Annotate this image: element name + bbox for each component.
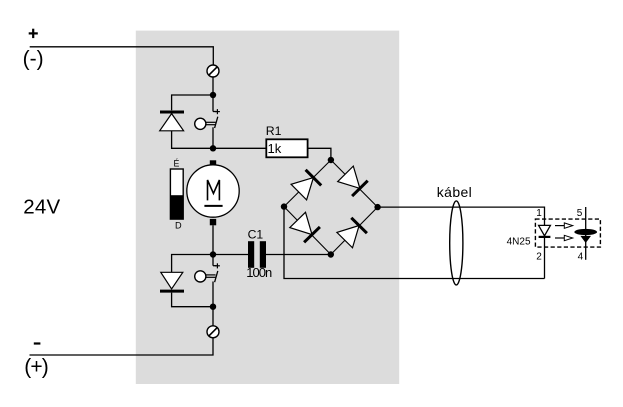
brush indicator É/D [170,169,183,219]
bridge diode D4 (top to right) [338,166,368,196]
wire diode D1 to node B [172,131,213,149]
wire node B to R1 [213,147,266,149]
switch S1 (pushbutton NO contact) [195,95,220,148]
svg-text:É: É [173,159,179,169]
svg-text:5: 5 [577,208,583,219]
wire terminal to node A [212,77,214,95]
diode D2 (freewheel, cathode down) [160,272,184,291]
bridge node bottom [328,251,334,257]
wire bridge right node to cable (top conductor) [378,207,545,225]
opto phototransistor (pins 5-4) [574,207,597,260]
svg-text:(-): (-) [23,47,44,70]
terminal X1 (circle with slash) [207,65,219,77]
wire node D to terminal X2 [212,307,214,326]
bridge node top [328,157,334,163]
capacitor C1 (100n) [248,241,266,268]
switch S2 (pushbutton NO contact) [195,255,220,307]
background panel (motor unit) [136,31,399,384]
svg-text:24V: 24V [23,196,60,219]
wire bottom supply [30,338,214,355]
bridge diode D6 (bottom to right) [337,218,367,248]
bridge diode D5 (left to bottom) [290,212,320,242]
cable sheath (ellipse) [450,201,463,285]
wire bridge left node to cable (bottom conductor) [284,207,545,279]
wire node C to diode D2 [172,255,213,273]
wire node A to diode D1 [172,95,213,110]
motor M (DC motor) [187,160,239,225]
opto light arrow 1 [555,223,573,228]
bridge node right [374,204,380,210]
svg-text:kábel: kábel [437,184,472,200]
label + (top supply) [29,29,38,38]
svg-text:1: 1 [536,208,542,219]
node B (junction below switch S1) [210,145,216,151]
wire R1 to bridge top node [308,148,331,160]
svg-text:4N25: 4N25 [507,237,531,248]
wire top supply [30,47,214,65]
label - (bottom supply) [34,342,41,344]
terminal X2 (circle with slash) [207,326,219,338]
svg-text:(+): (+) [24,355,49,378]
bridge rectifier edges (wires) [284,160,378,255]
svg-text:D: D [175,221,182,231]
bridge node left [281,203,287,209]
node A (junction above switch S1) [210,92,216,98]
wire diode D2 to node D [172,293,213,307]
diode D1 (freewheel, cathode up) [160,112,184,131]
opto LED (emitter diode) [539,225,551,278]
node D (junction below switch S2) [210,304,216,310]
optocoupler U1 4N25 dashed body [535,219,600,247]
wire node C to C1 [213,254,248,256]
svg-text:1k: 1k [268,141,282,156]
svg-text:C1: C1 [248,227,264,241]
svg-text:100n: 100n [246,265,272,280]
svg-text:4: 4 [578,252,584,263]
opto light arrow 2 [555,235,573,240]
svg-text:2: 2 [536,252,542,263]
bridge diode D3 (left to top) [291,170,321,200]
svg-text:R1: R1 [266,124,282,138]
resistor R1 (1k) [266,139,307,157]
wire C1 to bridge bottom node [266,254,331,256]
wire motor to node C [212,225,214,254]
node C (junction motor bottom) [210,251,216,257]
